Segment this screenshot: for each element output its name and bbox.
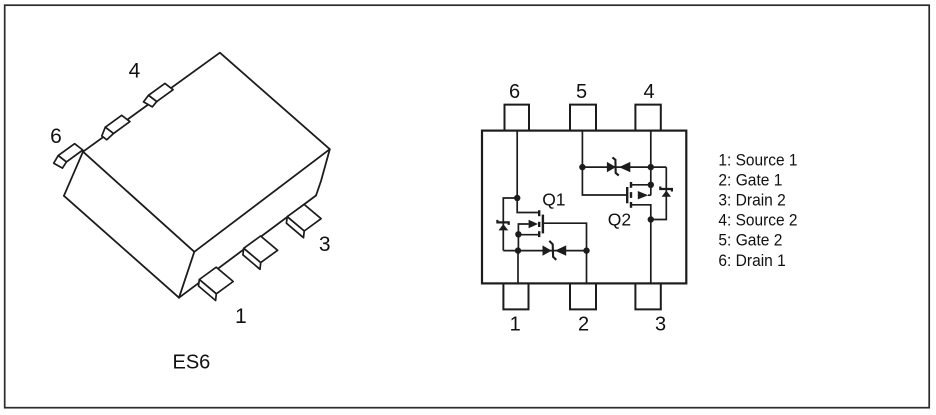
svg-text:4: 4 — [129, 59, 141, 82]
package right corner edge — [316, 149, 330, 195]
wire Q1 body-diode branch — [503, 198, 517, 251]
transistor Q2 — [627, 182, 648, 208]
wire Q2 body-diode branch — [651, 167, 667, 219]
junction rail-pin5 Q2 — [579, 164, 585, 170]
svg-text:6: 6 — [509, 81, 520, 103]
svg-text:6: 6 — [50, 125, 62, 148]
pin 6 lead (3D) — [58, 144, 83, 162]
svg-text:3: 3 — [655, 313, 666, 335]
wire Q1 gate lead — [544, 223, 587, 250]
pin 5 pad — [570, 105, 596, 131]
pin 1 lead (3D) — [199, 267, 233, 294]
pin 2 pad — [570, 283, 596, 309]
junction source/body Q2 — [648, 182, 654, 188]
junction rail-gate Q1 — [583, 247, 589, 253]
pin function list — [718, 150, 797, 269]
wire pin3 — [650, 220, 652, 284]
body diode Q1 (zener) — [497, 220, 508, 231]
pin 5 lead (3D) — [105, 115, 130, 133]
body diode Q2 (zener) — [660, 187, 672, 197]
svg-text:2: Gate 1: 2: Gate 1 — [718, 170, 782, 189]
junction drain Q1 — [514, 195, 520, 201]
svg-text:Q2: Q2 — [608, 210, 631, 230]
svg-text:6: Drain 1: 6: Drain 1 — [718, 251, 785, 270]
pin 4 pad — [635, 105, 660, 131]
wire pin1 — [517, 251, 519, 284]
package bottom-left edge — [64, 196, 179, 298]
junction source/body Q1 — [515, 231, 521, 237]
wire Q2 rail gate-source — [582, 166, 666, 168]
package front corner edge — [179, 252, 194, 298]
package top face — [83, 53, 330, 252]
transistor Q1 — [529, 210, 543, 237]
wire pin5 to gate bend — [581, 131, 583, 168]
svg-text:5: 5 — [576, 81, 587, 103]
svg-text:5: Gate 2: 5: Gate 2 — [718, 231, 782, 250]
wire Q1 drain lead — [517, 198, 538, 213]
pin 3 pad — [635, 283, 660, 309]
gate-source protection zener Q2 — [607, 157, 630, 175]
svg-text:3: Drain 2: 3: Drain 2 — [718, 191, 785, 210]
svg-text:1: 1 — [510, 313, 521, 335]
junction drain-diode Q2 — [648, 216, 654, 222]
svg-text:Q1: Q1 — [542, 190, 565, 210]
pin 4 lead (3D) — [149, 83, 174, 101]
svg-text:1: Source 1: 1: Source 1 — [718, 150, 797, 169]
wire pin4 to source/body — [650, 131, 652, 196]
wire pin2 — [586, 251, 588, 284]
svg-text:4: Source 2: 4: Source 2 — [718, 211, 797, 230]
gate-source protection zener Q1 — [543, 241, 567, 260]
pin 3 lead (3D) — [287, 204, 321, 231]
pin 1 pad — [503, 283, 528, 309]
svg-text:2: 2 — [578, 313, 589, 335]
svg-text:3: 3 — [319, 233, 331, 256]
pin 6 pad — [505, 105, 530, 131]
pin 2 lead (3D) — [244, 236, 278, 263]
wire Q1 source lead — [518, 235, 538, 251]
svg-text:1: 1 — [235, 305, 247, 328]
svg-text:4: 4 — [644, 81, 655, 103]
package bottom-right edge — [179, 196, 316, 298]
junction rail-pin4 Q2 — [648, 164, 654, 170]
wire Q2 gate lead — [582, 167, 626, 195]
package left corner edge — [64, 152, 83, 196]
wire pin6 to drain node — [516, 131, 518, 198]
junction rail-source Q1 — [515, 247, 521, 253]
wire Q2 drain lead — [632, 205, 651, 220]
wire Q1 gate-source rail — [503, 250, 586, 252]
wire Q1 body tie — [518, 224, 528, 234]
wire Q2 body tie — [648, 194, 651, 196]
svg-text:ES6: ES6 — [173, 352, 211, 374]
wire Q2 source lead — [632, 184, 651, 186]
package outline rect — [482, 131, 686, 284]
